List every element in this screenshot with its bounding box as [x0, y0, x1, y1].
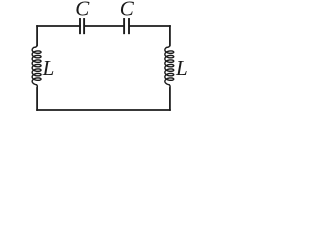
capacitor C1 [80, 19, 84, 33]
svg-text:L: L [175, 56, 188, 80]
svg-text:C: C [75, 0, 90, 21]
wire right vertical (upper) [169, 26, 171, 46]
wire left vertical (upper) [36, 26, 38, 46]
capacitor C2 [124, 19, 129, 33]
inductor L2 coil [165, 26, 174, 110]
wire right vertical (lower) [169, 88, 171, 110]
svg-text:C: C [120, 0, 135, 21]
inductor L1 coil [32, 26, 41, 110]
wire between capacitors [85, 25, 123, 27]
svg-text:L: L [42, 56, 55, 80]
wire bottom [37, 109, 170, 111]
wire left vertical (lower) [36, 88, 38, 110]
wire top-right segment [130, 25, 170, 27]
wire top-left segment [37, 25, 80, 27]
